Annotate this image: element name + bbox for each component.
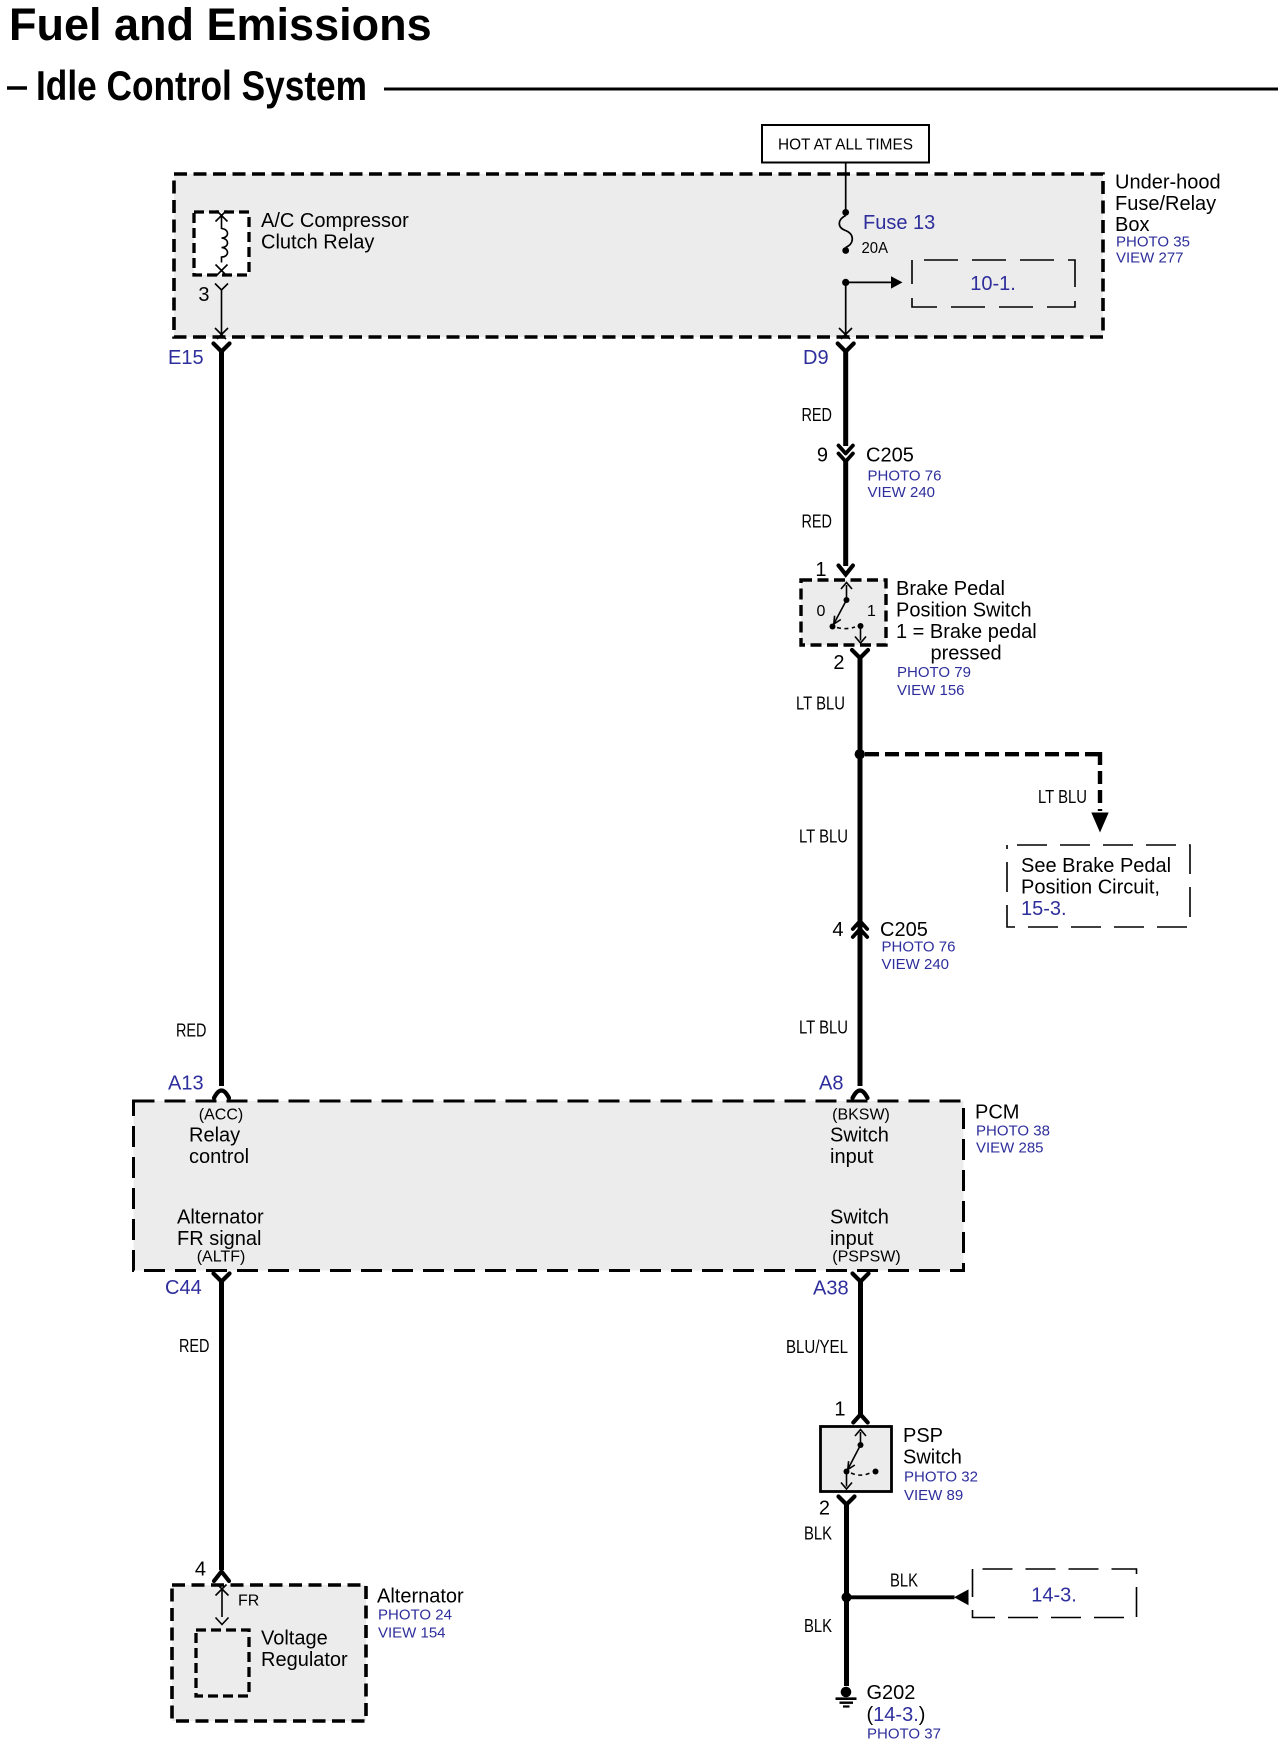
relay coil symbol [216,211,228,276]
svg-text:C205: C205 [866,445,914,467]
Alternator label [377,1586,464,1642]
alternator pin4 flare [214,1572,229,1582]
svg-text:Idle Control System: Idle Control System [36,62,367,109]
svg-text:2: 2 [833,652,844,674]
svg-text:A/C Compressor: A/C Compressor [261,210,409,232]
connector A13 cap [214,1091,229,1099]
HOT AT ALL TIMES box [762,125,929,163]
svg-text:PCM: PCM [975,1102,1019,1124]
svg-text:4: 4 [195,1559,206,1581]
svg-text:VIEW 154: VIEW 154 [378,1625,446,1642]
relay K1 A/C Compressor Clutch Relay box [194,212,249,275]
svg-text:Relay: Relay [189,1125,240,1147]
svg-text:PHOTO 38: PHOTO 38 [976,1123,1050,1140]
PCM label [975,1102,1050,1157]
G202 label [867,1682,941,1743]
svg-text:BLK: BLK [890,1571,918,1591]
brake switch internals [830,583,867,644]
PSP pin1 flare [853,1415,867,1423]
wire PSP to ground [844,1504,849,1686]
svg-text:(ACC): (ACC) [199,1107,243,1124]
svg-text:Switch: Switch [830,1125,889,1147]
svg-text:PHOTO 79: PHOTO 79 [897,664,971,681]
svg-text:14-3.: 14-3. [1031,1585,1077,1607]
wire C205 to brake switch [843,462,848,567]
relay pin 3 connector chevron [215,284,228,291]
alternator box [172,1585,366,1721]
svg-text:PHOTO 35: PHOTO 35 [1116,234,1190,251]
svg-text:input: input [830,1228,874,1250]
svg-text:LT BLU: LT BLU [799,827,848,847]
svg-text:RED: RED [802,405,833,425]
svg-text:LT BLU: LT BLU [1038,787,1087,807]
svg-text:Alternator: Alternator [177,1207,264,1229]
svg-text:PHOTO 32: PHOTO 32 [904,1469,978,1486]
svg-text:A13: A13 [168,1073,204,1095]
svg-text:VIEW 156: VIEW 156 [897,682,965,699]
svg-text:1: 1 [815,559,826,581]
svg-text:Position Circuit,: Position Circuit, [1021,877,1160,899]
wire brake switch to A8 [858,657,863,1086]
wire A38 to PSP switch [858,1281,863,1414]
svg-text:Alternator: Alternator [377,1586,464,1608]
junction dot brake branch [855,749,865,759]
Under-hood Fuse/Relay Box [174,174,1103,337]
subtitle rule line [384,88,1278,91]
10-1 reference box [912,260,1075,307]
ground G202 [836,1687,857,1707]
connector C205 pin 4 symbol [853,921,867,937]
svg-text:(BKSW): (BKSW) [832,1107,890,1124]
dashed branch wire to see box [865,752,1100,811]
svg-text:BLK: BLK [804,1524,832,1544]
svg-text:HOT AT ALL TIMES: HOT AT ALL TIMES [778,137,913,154]
svg-text:RED: RED [176,1021,207,1041]
connector D9 [838,344,854,352]
svg-text:VIEW 277: VIEW 277 [1116,250,1184,267]
svg-text:A38: A38 [813,1278,849,1300]
svg-text:3: 3 [198,284,209,306]
alternator internal wire FR [216,1585,229,1625]
subtitle dash [7,86,27,89]
Brake Pedal Position Switch label [896,578,1037,699]
wire pin3 to box edge with arrow [215,290,228,339]
svg-text:E15: E15 [168,347,204,369]
brake switch pin2 connector [852,650,868,658]
svg-text:RED: RED [802,512,833,532]
svg-text:9: 9 [817,445,828,467]
A/C Compressor Clutch Relay label [261,210,409,254]
brake switch pin1 flare [839,566,853,575]
Under-hood Fuse/Relay Box label [1115,172,1221,267]
svg-text:Voltage: Voltage [261,1628,328,1650]
14-3 reference box [973,1569,1137,1618]
svg-text:G202: G202 [867,1682,916,1704]
svg-text:VIEW 240: VIEW 240 [868,484,936,501]
branch arrowhead [1091,813,1108,833]
junction dot BLK branch [842,1592,852,1602]
PSP pin2 connector [839,1497,855,1505]
PSP Switch label [903,1425,978,1504]
svg-text:BLU/YEL: BLU/YEL [786,1337,848,1357]
svg-text:Clutch Relay: Clutch Relay [261,232,374,254]
PSP switch box [821,1427,892,1492]
svg-text:2: 2 [819,1498,830,1520]
branch arrow to 10-1 [846,276,903,288]
svg-text:Fuse/Relay: Fuse/Relay [1115,193,1216,215]
See Brake Pedal Position Circuit box [1007,845,1190,927]
junction dot fuse branch [842,279,849,286]
svg-text:1: 1 [867,603,876,620]
branch wire to 14-3 [847,1595,955,1599]
svg-text:PHOTO 76: PHOTO 76 [882,939,956,956]
svg-text:Regulator: Regulator [261,1649,348,1671]
svg-text:control: control [189,1146,249,1168]
svg-text:(PSPSW): (PSPSW) [832,1249,900,1266]
connector E15 [214,344,230,352]
svg-text:1 = Brake pedal: 1 = Brake pedal [896,621,1037,643]
PCM box [134,1101,964,1271]
svg-text:0: 0 [817,603,826,620]
fuse F13 symbol [839,209,852,254]
svg-text:RED: RED [179,1336,210,1356]
C205 pin4 label [880,919,955,973]
Voltage Regulator label [261,1628,348,1672]
svg-text:PHOTO 76: PHOTO 76 [868,468,942,485]
svg-text:Fuel and Emissions: Fuel and Emissions [9,0,432,50]
svg-text:C44: C44 [165,1277,202,1299]
svg-text:4: 4 [832,919,843,941]
svg-text:Fuse 13: Fuse 13 [863,212,935,234]
PCM pin function labels right [830,1107,901,1266]
svg-text:input: input [830,1146,874,1168]
svg-text:Under-hood: Under-hood [1115,172,1221,194]
svg-text:Switch: Switch [830,1207,889,1229]
svg-text:Switch: Switch [903,1447,962,1469]
svg-text:VIEW 240: VIEW 240 [882,956,950,973]
svg-text:10-1.: 10-1. [970,273,1016,295]
wire D9 to C205 [843,351,848,446]
svg-text:FR signal: FR signal [177,1228,261,1250]
svg-text:VIEW 285: VIEW 285 [976,1140,1044,1157]
PSP switch internals [841,1430,879,1490]
svg-text:D9: D9 [803,347,829,369]
svg-text:(14-3.): (14-3.) [867,1704,926,1726]
svg-text:A8: A8 [819,1073,843,1095]
voltage regulator box [196,1630,249,1696]
svg-text:(ALTF): (ALTF) [197,1249,246,1266]
svg-text:PSP: PSP [903,1425,943,1447]
svg-text:pressed: pressed [931,643,1002,665]
svg-text:VIEW 89: VIEW 89 [904,1487,963,1504]
svg-text:20A: 20A [862,240,889,257]
branch arrowhead 14-3 [954,1589,969,1605]
connector C44 [214,1274,230,1282]
svg-text:LT BLU: LT BLU [799,1018,848,1038]
wire fuse to D9 with arrow [839,282,852,339]
svg-text:15-3.: 15-3. [1021,898,1067,920]
C205 pin9 label [866,445,941,502]
wire HOT box to fuse [845,163,847,211]
svg-text:Position Switch: Position Switch [896,600,1032,622]
PCM pin function labels left [177,1107,264,1266]
svg-text:BLK: BLK [804,1616,832,1636]
svg-text:PHOTO 37: PHOTO 37 [867,1726,941,1743]
wire E15 to A13 (left vertical) [219,351,224,1086]
connector A38 [853,1274,869,1282]
connector C205 pin 9 symbol [839,446,853,462]
connector A8 cap [853,1091,868,1099]
svg-text:See Brake Pedal: See Brake Pedal [1021,855,1171,877]
svg-text:FR: FR [238,1593,259,1610]
svg-text:Brake Pedal: Brake Pedal [896,578,1005,600]
wire C44 to alternator [219,1281,224,1570]
svg-text:1: 1 [834,1399,845,1421]
brake pedal position switch box [801,580,886,645]
svg-text:LT BLU: LT BLU [796,694,845,714]
svg-text:PHOTO 24: PHOTO 24 [378,1607,452,1624]
